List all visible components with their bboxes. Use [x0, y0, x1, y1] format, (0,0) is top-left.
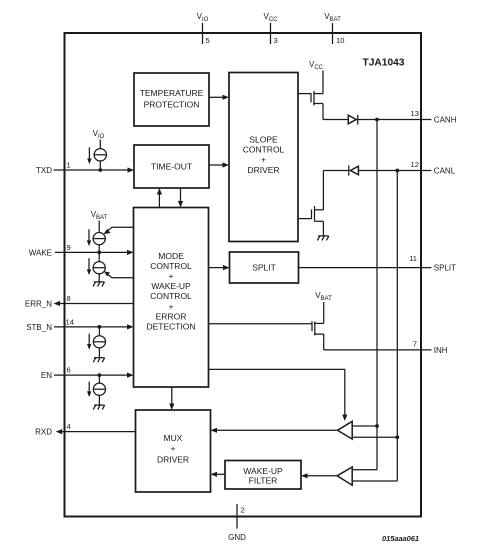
- pin 1 TXD wire: [36, 161, 134, 176]
- wire RX1 to mux: [211, 428, 338, 433]
- svg-text:TXD: TXD: [36, 166, 52, 175]
- wire time-out to slope control: [209, 162, 229, 167]
- wire mode control to split: [209, 265, 230, 270]
- block slope control + driver: [229, 73, 298, 242]
- pin 6 EN wire: [41, 366, 134, 381]
- svg-text:RXD: RXD: [35, 428, 52, 437]
- outer box TJA1043: [65, 33, 422, 517]
- node STB_N junction: [98, 325, 102, 329]
- pin 11 SPLIT wire: [299, 254, 457, 272]
- svg-text:VIO: VIO: [197, 12, 209, 23]
- node receiver CANL tap: [395, 435, 399, 439]
- svg-text:10: 10: [336, 36, 344, 45]
- current source I1 (TXD pull-up to VIO): [87, 129, 106, 170]
- pin 12 CANL wire: [358, 160, 455, 176]
- svg-text:12: 12: [411, 160, 419, 169]
- block split: [230, 252, 299, 283]
- node WAKE junction: [97, 251, 101, 255]
- wire time-out feedback up: [157, 188, 162, 208]
- pin 2 GND: [228, 504, 246, 542]
- svg-text:ERROR: ERROR: [156, 311, 187, 321]
- pin 14 STB_N wire: [26, 317, 133, 332]
- node CANH junction: [375, 118, 379, 122]
- transistor Q2 CANL low-side n-channel: [298, 171, 323, 236]
- svg-text:13: 13: [411, 109, 419, 118]
- block wake-up filter: [225, 461, 301, 490]
- ground below I3: [93, 282, 105, 287]
- current source I5 (EN pull-down): [87, 375, 106, 405]
- wire CANL from Q2: [323, 170, 348, 172]
- svg-text:STB_N: STB_N: [26, 323, 52, 332]
- pin 5 VIO supply: [197, 12, 210, 45]
- svg-text:+: +: [171, 443, 176, 453]
- receiver RX1 (CAN receiver): [338, 421, 353, 439]
- diode D1 on CANH: [348, 115, 357, 125]
- block mode control + wake-up control + error detection: [134, 208, 209, 388]
- svg-text:DRIVER: DRIVER: [157, 455, 189, 465]
- svg-text:VCC: VCC: [309, 60, 324, 71]
- wire CANH sense vertical: [352, 120, 377, 470]
- wire mode control to mux: [169, 387, 174, 410]
- svg-text:+: +: [169, 271, 174, 281]
- wire temperature protection to slope control: [209, 95, 229, 100]
- svg-text:DETECTION: DETECTION: [146, 322, 195, 332]
- svg-text:8: 8: [67, 294, 71, 303]
- svg-text:EN: EN: [41, 371, 52, 380]
- svg-text:VBAT: VBAT: [91, 210, 108, 221]
- svg-text:CONTROL: CONTROL: [243, 144, 285, 154]
- wire mode control to receiver enable: [209, 369, 348, 421]
- svg-text:CONTROL: CONTROL: [150, 261, 192, 271]
- pin 9 WAKE wire: [29, 243, 134, 257]
- wire CANH from Q1: [323, 119, 348, 121]
- svg-text:1: 1: [67, 161, 71, 170]
- svg-text:6: 6: [67, 366, 71, 375]
- svg-text:MUX: MUX: [164, 433, 183, 443]
- svg-text:VBAT: VBAT: [324, 12, 341, 23]
- svg-text:ERR_N: ERR_N: [25, 300, 52, 309]
- pin 10 VBAT supply: [324, 12, 344, 45]
- svg-text:CONTROL: CONTROL: [150, 291, 192, 301]
- svg-text:TIME-OUT: TIME-OUT: [151, 162, 192, 172]
- pin 13 CANH wire: [358, 109, 457, 125]
- pin 7 INH wire: [324, 339, 448, 355]
- svg-text:CANH: CANH: [434, 116, 457, 125]
- node receiver CANH tap: [375, 424, 379, 428]
- part name TJA1043: [363, 58, 405, 69]
- wire I3 enable from mode control: [104, 271, 134, 277]
- transistor Q1 CANH high-side p-channel: [298, 91, 323, 120]
- svg-text:VCC: VCC: [263, 12, 278, 23]
- svg-text:5: 5: [206, 36, 210, 45]
- svg-text:2: 2: [241, 506, 245, 515]
- svg-text:9: 9: [67, 243, 71, 252]
- ground below Q2: [317, 236, 329, 241]
- figure code 015aaa061: [382, 534, 419, 543]
- svg-text:3: 3: [274, 36, 278, 45]
- node TXD junction: [98, 168, 102, 172]
- pin 8 ERR_N wire: [25, 294, 134, 309]
- svg-text:GND: GND: [228, 533, 246, 542]
- node EN junction: [98, 373, 102, 377]
- svg-text:SPLIT: SPLIT: [252, 263, 276, 273]
- svg-text:015aaa061: 015aaa061: [382, 534, 419, 543]
- transistor Q3 INH high-side: [312, 321, 324, 350]
- svg-text:SPLIT: SPLIT: [434, 264, 456, 273]
- svg-text:FILTER: FILTER: [249, 476, 278, 486]
- diode D2 on CANL: [349, 165, 359, 175]
- wire I2 enable from mode control: [104, 227, 134, 234]
- wire wake-up filter to mux: [211, 472, 226, 477]
- current source I2 (WAKE pull-up to VBAT): [87, 210, 108, 252]
- svg-text:WAKE-UP: WAKE-UP: [243, 466, 283, 476]
- svg-text:WAKE-UP: WAKE-UP: [151, 281, 191, 291]
- svg-text:CANL: CANL: [434, 167, 456, 176]
- svg-text:11: 11: [409, 254, 417, 263]
- svg-text:14: 14: [66, 317, 74, 326]
- wire mode control to Q3 gate: [209, 323, 313, 325]
- VCC node above Q1: [309, 60, 324, 94]
- svg-text:TJA1043: TJA1043: [363, 58, 405, 69]
- block mux + driver: [136, 410, 211, 492]
- block temperature protection: [134, 73, 209, 126]
- wire mode control down: [178, 188, 183, 208]
- svg-text:MODE: MODE: [158, 251, 184, 261]
- svg-text:4: 4: [67, 422, 71, 431]
- pin 4 RXD wire: [35, 422, 135, 437]
- svg-text:SLOPE: SLOPE: [249, 134, 278, 144]
- receiver RX2 (wake-up receiver): [337, 467, 352, 485]
- current source I4 (STB_N pull-down): [87, 327, 106, 358]
- VBAT node above Q3: [315, 291, 332, 323]
- svg-text:INH: INH: [434, 346, 448, 355]
- block time-out: [134, 145, 209, 188]
- pin 3 VCC supply: [263, 12, 278, 45]
- svg-text:VBAT: VBAT: [315, 291, 332, 302]
- current source I3 (WAKE pull-down): [87, 252, 106, 282]
- svg-text:VIO: VIO: [93, 129, 105, 140]
- wire CANL sense vertical: [352, 171, 397, 482]
- wire RX2 to wake-up filter: [301, 473, 337, 478]
- svg-text:DRIVER: DRIVER: [247, 165, 279, 175]
- node CANL junction: [395, 169, 399, 173]
- ground below I4: [93, 358, 105, 363]
- svg-text:+: +: [261, 154, 266, 164]
- svg-text:PROTECTION: PROTECTION: [144, 100, 200, 110]
- svg-text:7: 7: [413, 339, 417, 348]
- svg-text:+: +: [169, 301, 174, 311]
- svg-text:WAKE: WAKE: [29, 248, 52, 257]
- svg-text:TEMPERATURE: TEMPERATURE: [140, 88, 204, 98]
- ground below I5: [93, 405, 105, 410]
